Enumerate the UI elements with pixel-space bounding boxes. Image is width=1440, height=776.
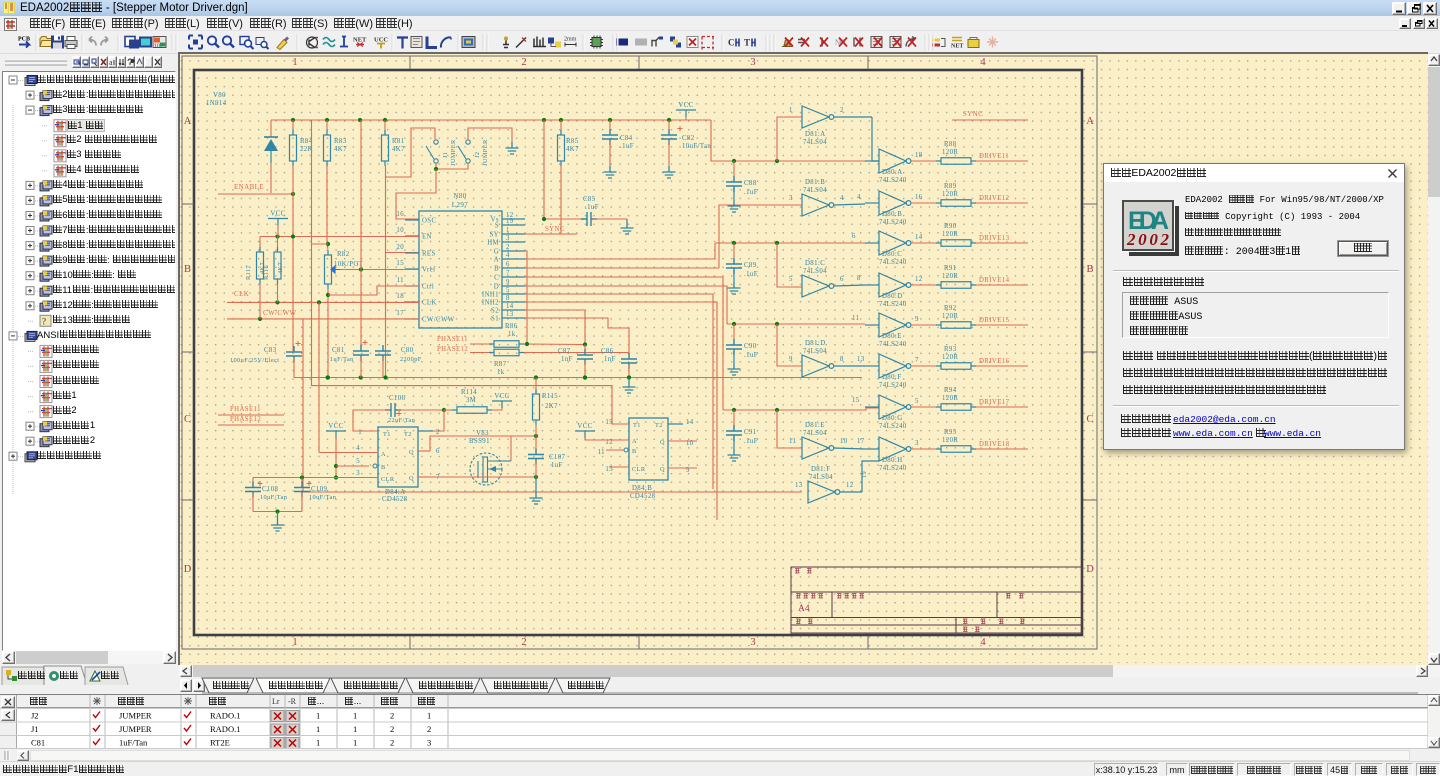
svg-text:RT2E: RT2E [210, 738, 230, 748]
junction lower rail [627, 375, 631, 379]
svg-text:C86: C86 [601, 348, 614, 355]
svg-text:T1: T1 [383, 431, 391, 438]
svg-text:6: 6 [852, 233, 856, 240]
svg-text:22uF/Tan: 22uF/Tan [388, 417, 416, 424]
svg-text:74LS240: 74LS240 [879, 219, 907, 226]
resistor R81 4K7 [384, 120, 386, 135]
wire B to inverter D81:B [719, 205, 802, 268]
svg-text:J1: J1 [442, 152, 449, 158]
wire DRIVE17 net [976, 406, 1028, 408]
wire D80:G output [911, 406, 941, 408]
svg-text:G: G [494, 249, 499, 256]
svg-text:1: 1 [353, 724, 357, 734]
svg-text:11: 11 [789, 438, 796, 445]
svg-text:C87: C87 [558, 348, 571, 355]
wire D84:B T2 stub [668, 423, 683, 425]
svg-text:74LS04: 74LS04 [803, 268, 827, 275]
svg-text:14: 14 [686, 419, 694, 426]
svg-text:1nF: 1nF [561, 356, 573, 363]
svg-text:9: 9 [789, 356, 793, 363]
capacitor C83 100uF/25V/Elect [286, 346, 302, 362]
wire D81:B output [834, 204, 865, 205]
svg-text:Q: Q [660, 466, 665, 473]
svg-text:14: 14 [915, 234, 923, 241]
svg-text:-R: -R [288, 697, 297, 706]
svg-text:74LS240: 74LS240 [879, 301, 907, 308]
svg-text:T2: T2 [404, 431, 412, 438]
svg-text:PHASE11: PHASE11 [437, 336, 468, 343]
svg-text:120R: 120R [942, 354, 958, 361]
svg-text:4K7: 4K7 [277, 262, 284, 274]
svg-text:CW/CWW: CW/CWW [422, 317, 455, 324]
svg-text:R95: R95 [944, 429, 957, 436]
svg-text:1uF/Tan: 1uF/Tan [119, 738, 148, 748]
svg-text:Q: Q [660, 439, 665, 446]
svg-text:JUMPER: JUMPER [119, 724, 152, 734]
inverter D81:E 74LS04 [802, 437, 829, 459]
svg-text:NET: NET [951, 44, 963, 50]
wire feed row3 [715, 242, 865, 244]
wire feed row5 [727, 323, 865, 325]
capacitor C88 .1uF [733, 161, 735, 182]
svg-text:1nF: 1nF [604, 356, 616, 363]
capacitor C81 1uF/Tan [360, 270, 362, 352]
svg-text:D80:E: D80:E [882, 333, 902, 340]
wire D80:E output [911, 324, 941, 326]
capacitor C90 .1uF [733, 324, 735, 345]
junction lower rail [583, 375, 587, 379]
svg-text:Ctrl: Ctrl [422, 284, 434, 291]
svg-text:R83: R83 [334, 138, 347, 145]
svg-text:1: 1 [316, 724, 320, 734]
wire C net [525, 277, 723, 410]
wire bundle vertical x319 [318, 302, 320, 452]
svg-text:.1uF: .1uF [744, 352, 758, 359]
wire V83 source line [433, 476, 536, 478]
svg-text:S2: S2 [491, 308, 499, 315]
svg-text:74LS240: 74LS240 [879, 382, 907, 389]
svg-text:S1: S1 [491, 316, 499, 323]
resistor R90 120R [941, 240, 971, 247]
svg-text:C88: C88 [744, 180, 757, 187]
svg-text:CD4528: CD4528 [630, 493, 656, 500]
svg-text:C107: C107 [549, 454, 566, 461]
svg-text:R89: R89 [944, 183, 957, 190]
svg-text:C109: C109 [311, 486, 328, 493]
capacitor C89 .1uF [733, 243, 735, 264]
svg-text:CD4528: CD4528 [382, 496, 408, 503]
wire D84:B Q stub [668, 440, 697, 442]
svg-text:8: 8 [840, 356, 844, 363]
svg-text:V80: V80 [213, 92, 226, 99]
svg-text:120R: 120R [942, 231, 958, 238]
wire J2 top to ground [468, 128, 512, 142]
svg-text:74LS240: 74LS240 [879, 177, 907, 184]
svg-text:C91: C91 [744, 429, 757, 436]
junction on top rail [542, 118, 546, 122]
svg-text:102: 102 [154, 44, 163, 50]
svg-text:2K7: 2K7 [545, 403, 558, 410]
svg-text:6: 6 [506, 261, 510, 268]
svg-text:B: B [494, 266, 499, 273]
ground lower rail [628, 378, 630, 382]
svg-text:RADO.1: RADO.1 [210, 711, 240, 721]
svg-text:4: 4 [506, 252, 510, 259]
wire to D81:F input [303, 491, 802, 493]
svg-text:B: B [184, 264, 191, 275]
svg-text:Q: Q [409, 475, 414, 482]
svg-text:20: 20 [396, 244, 404, 251]
svg-text:D80:B: D80:B [882, 211, 902, 218]
inverter D81:B 74LS04 [802, 194, 829, 216]
zone tick marks [182, 56, 1097, 649]
wire G net to R86 [525, 251, 527, 344]
svg-text:RES: RES [422, 251, 436, 258]
wire R86 to G and C87 [524, 343, 585, 346]
wire D84:A Q stub [418, 450, 430, 452]
wire A net [525, 243, 715, 259]
svg-text:A: A [1086, 116, 1094, 127]
wire rail to Vref line [360, 120, 362, 270]
svg-text:D81:C: D81:C [805, 260, 825, 267]
wire INH2 net [525, 302, 717, 520]
ground top (between J2 and R85) [506, 142, 519, 154]
svg-text:1: 1 [789, 107, 793, 114]
svg-text:17: 17 [396, 310, 404, 317]
IC D84:A CD4528 [378, 427, 418, 487]
junction on top rail [667, 118, 671, 122]
svg-text:C: C [728, 38, 735, 48]
wire V83 gate feed [430, 436, 536, 451]
svg-text:JUMPER: JUMPER [119, 711, 152, 721]
svg-text:C: C [1086, 414, 1093, 425]
svg-text:CW/CWW: CW/CWW [263, 309, 297, 317]
junction lower rail [383, 375, 387, 379]
svg-text:D: D [494, 284, 499, 291]
svg-text:4: 4 [356, 445, 360, 452]
svg-text:16: 16 [396, 211, 404, 218]
wire D80:F input stub [865, 365, 879, 367]
svg-text:15: 15 [605, 419, 613, 426]
sheet outer zone frame [182, 56, 1097, 649]
wire bundle vertical x303 [302, 319, 304, 492]
svg-text:R116: R116 [263, 265, 270, 280]
svg-text:3: 3 [750, 637, 755, 648]
svg-text:T: T [744, 38, 750, 48]
svg-text:R88: R88 [944, 141, 957, 148]
sheet inner border [194, 70, 1082, 635]
svg-text:120R: 120R [942, 395, 958, 402]
resistor R85 4K7 [560, 120, 562, 135]
svg-text:BSS91: BSS91 [469, 438, 490, 445]
svg-text:C81: C81 [31, 738, 45, 748]
svg-text:8: 8 [857, 275, 861, 282]
wire RES net [386, 252, 420, 254]
svg-text:Lr: Lr [272, 697, 280, 706]
wire A pin feed [319, 452, 377, 454]
svg-text:SY: SY [490, 232, 500, 239]
resistor R83 4K7 [326, 120, 328, 135]
svg-text:C: C [494, 275, 499, 282]
wire B pin stub [336, 465, 369, 467]
svg-text:R81: R81 [392, 138, 405, 145]
svg-text:CLR: CLR [632, 466, 646, 473]
wire DRIVE14 net [976, 284, 1028, 286]
wire D81:D output [834, 365, 865, 367]
svg-text:10: 10 [840, 438, 848, 445]
svg-text:5: 5 [915, 398, 919, 405]
svg-text:R91: R91 [944, 265, 957, 272]
svg-text:1: 1 [292, 637, 297, 648]
svg-text:D84:A: D84:A [385, 489, 406, 496]
svg-text:6: 6 [840, 276, 844, 283]
wire D80:H input stub [865, 448, 879, 450]
svg-text:2: 2 [436, 429, 440, 436]
capacitor C106 22uF/Tan [385, 403, 401, 417]
svg-text:a: a [109, 58, 113, 67]
svg-text:R115: R115 [542, 393, 558, 400]
svg-text:A: A [381, 451, 386, 458]
svg-text:4: 4 [980, 57, 986, 68]
svg-text:R114: R114 [461, 389, 477, 396]
svg-text:D81:D: D81:D [805, 340, 826, 347]
svg-text:L297: L297 [452, 201, 468, 209]
wire S2 net to C87 [525, 310, 585, 345]
wire D80:C output [911, 242, 941, 244]
wire R82 wiper to Vref [340, 269, 419, 271]
svg-text:15: 15 [396, 260, 404, 267]
svg-text:VCC: VCC [577, 423, 592, 430]
svg-text:4K7: 4K7 [392, 146, 405, 153]
svg-text:15: 15 [852, 397, 860, 404]
svg-text:D81:F: D81:F [811, 466, 830, 473]
svg-text:A: A [632, 438, 637, 445]
svg-text:HM: HM [487, 240, 499, 247]
svg-text:.1uF: .1uF [620, 143, 634, 150]
svg-text:74LS04: 74LS04 [803, 430, 827, 437]
svg-text:74LS04: 74LS04 [803, 187, 827, 194]
svg-text:R82: R82 [337, 251, 350, 258]
jumper J2 [466, 140, 470, 144]
capacitor C91 .1uF [733, 410, 735, 431]
wire VCC top rail [294, 119, 711, 121]
wire D80:A input stub [865, 160, 879, 162]
svg-text:2: 2 [521, 57, 526, 68]
svg-text:74LS04: 74LS04 [803, 139, 827, 146]
svg-text:1N914: 1N914 [206, 100, 227, 107]
svg-text:.1uF: .1uF [744, 189, 758, 196]
wire DRIVE16 net [976, 365, 1028, 367]
resistor R89 120R [941, 200, 971, 207]
wire V80 to ENABLE [270, 163, 272, 193]
wire D80:D output [911, 284, 941, 286]
svg-text:SYNC: SYNC [545, 226, 565, 233]
capacitor C108 10uF/Tan [252, 478, 254, 488]
svg-text:100uF/25V/Elect: 100uF/25V/Elect [230, 357, 279, 364]
wire R82 bottom to Ctrl and lower rail [327, 289, 329, 378]
svg-text:1k: 1k [497, 369, 505, 376]
svg-text:CLR: CLR [381, 476, 395, 483]
svg-text:4K7: 4K7 [334, 146, 347, 153]
svg-text:J1: J1 [31, 724, 39, 734]
wire feed row7 [723, 408, 879, 410]
svg-text:74LS04: 74LS04 [809, 474, 833, 481]
wire Vs vertical [543, 120, 545, 219]
svg-text:DRIVE12: DRIVE12 [979, 195, 1010, 202]
resistor R95 120R [941, 446, 971, 453]
svg-text:3: 3 [427, 738, 431, 748]
svg-text:D80:D: D80:D [882, 293, 903, 300]
wire D80:G input stub [865, 406, 879, 408]
inverter D81:A 74LS04 [802, 106, 829, 128]
svg-text:4K7: 4K7 [566, 146, 579, 153]
svg-text:120R: 120R [942, 273, 958, 280]
svg-text:17: 17 [857, 438, 865, 445]
svg-text:A4: A4 [798, 604, 810, 614]
junction on top rail [383, 118, 387, 122]
potentiometer R82 10K/POT [325, 255, 332, 284]
svg-text:C90: C90 [744, 343, 757, 350]
svg-text:R94: R94 [944, 387, 957, 394]
svg-text:2: 2 [427, 724, 431, 734]
wire R81 to RES pin and C80 [385, 166, 387, 378]
wire T2 stub [418, 430, 433, 432]
svg-text:3: 3 [750, 57, 755, 68]
wire branch to D81:A input [777, 117, 802, 161]
capacitor C86 1nF [628, 353, 630, 357]
resistor R116 4K7 [277, 237, 279, 253]
junction on top rail [358, 118, 362, 122]
capacitor C84 .1uF [609, 120, 611, 133]
pin number labels L297 left [0, 0, 1, 1]
svg-text:DRIVE11: DRIVE11 [979, 153, 1009, 160]
wire D84:B B stub [606, 449, 624, 451]
svg-text:120R: 120R [942, 191, 958, 198]
svg-text:C85: C85 [583, 196, 596, 203]
svg-text:2mm: 2mm [564, 37, 577, 43]
svg-text:13: 13 [506, 311, 514, 318]
svg-text:VCC: VCC [678, 102, 693, 109]
svg-text:74LS240: 74LS240 [879, 423, 907, 430]
wire D80:F output [911, 365, 941, 367]
svg-text:PHASE12: PHASE12 [230, 416, 261, 423]
svg-text:D: D [1086, 564, 1094, 575]
capacitor C107 1uF [535, 436, 537, 452]
svg-text:UCC: UCC [374, 37, 388, 44]
wire C106 left to T1 [353, 410, 389, 431]
diode V80 1N914 [271, 119, 294, 121]
resistor R93 120R [941, 363, 971, 370]
title block [791, 567, 1082, 633]
svg-text:11: 11 [852, 315, 859, 322]
wire DRIVE13 net [976, 242, 1028, 244]
svg-text:1: 1 [316, 738, 320, 748]
wire D80:H output [911, 448, 941, 450]
title block texts [795, 569, 812, 574]
wire D81:A output [834, 116, 872, 118]
resistor R92 120R [941, 322, 971, 329]
resistor R86 1k [470, 343, 489, 345]
wire D84:B CLR stub [609, 466, 629, 468]
junction on top rail [608, 118, 612, 122]
svg-text:C82: C82 [682, 135, 695, 142]
svg-text:R84: R84 [300, 138, 313, 145]
svg-text:SYNC: SYNC [963, 110, 983, 118]
svg-text:R93: R93 [944, 346, 957, 353]
wire R81 node to J1 top [386, 128, 436, 177]
IC D84:B CD4528 [629, 418, 668, 480]
wire B net [525, 267, 719, 269]
resistor R87 1k [470, 352, 489, 354]
svg-text:VCC: VCC [494, 393, 509, 400]
capacitor C109 10uF/Tan [301, 478, 303, 488]
svg-text:JUMPER: JUMPER [450, 139, 457, 166]
resistor R115 2K7 [535, 378, 537, 395]
junction on top rail [325, 118, 329, 122]
svg-text:A: A [184, 116, 192, 127]
svg-text:120R: 120R [942, 313, 958, 320]
svg-text:R92: R92 [944, 305, 957, 312]
svg-text:2200pF: 2200pF [400, 356, 422, 363]
svg-text:Q: Q [409, 449, 414, 456]
buffer D80:D 74LS240 [879, 273, 906, 297]
capacitor C87 1nF [584, 345, 586, 353]
svg-text:2: 2 [390, 738, 394, 748]
buffer D80:B 74LS240 [879, 191, 906, 215]
inverter D81:D 74LS04 [802, 355, 829, 377]
wire VCC rail drop to row1 feed [711, 120, 865, 161]
svg-text:C83: C83 [264, 347, 277, 354]
svg-text:C: C [184, 414, 191, 425]
junction lower rail [326, 375, 330, 379]
svg-text:16: 16 [915, 194, 923, 201]
svg-text:12: 12 [915, 276, 923, 283]
svg-text:ENABLE: ENABLE [234, 183, 264, 191]
svg-text:19: 19 [506, 218, 514, 225]
resistor R88 120R [941, 158, 971, 165]
buffer D80:G 74LS240 [879, 395, 906, 419]
svg-text:D80:A: D80:A [882, 169, 903, 176]
wire ENABLE net [218, 193, 293, 195]
svg-text:INH1: INH1 [482, 292, 499, 299]
svg-text:1uF: 1uF [551, 462, 563, 469]
wire bundle vertical x311 [312, 120, 630, 424]
wire D80:C input stub [865, 242, 879, 244]
svg-text:R90: R90 [944, 223, 957, 230]
buffer D80:A 74LS240 [879, 149, 906, 173]
svg-text:Vref: Vref [422, 267, 436, 274]
zone letters and numbers [184, 57, 1095, 648]
svg-text:C80: C80 [401, 347, 414, 354]
svg-text:D81:E: D81:E [805, 422, 825, 429]
svg-text:RADO.1: RADO.1 [210, 724, 240, 734]
svg-text:3M: 3M [466, 397, 476, 404]
svg-text:13: 13 [795, 482, 803, 489]
svg-text:VCC: VCC [270, 211, 285, 218]
svg-text:1: 1 [427, 711, 431, 721]
svg-text:5: 5 [506, 287, 510, 294]
svg-text:R117: R117 [245, 265, 252, 280]
svg-text:12: 12 [846, 482, 854, 489]
capacitor C85 .1uF [581, 212, 597, 226]
wire CW/CWW net [227, 318, 419, 320]
junction lower rail [534, 375, 538, 379]
wire DRIVE11 net [976, 160, 1028, 162]
svg-text:3: 3 [506, 235, 510, 242]
wire D81:E output [834, 448, 865, 449]
svg-text:D80:G: D80:G [882, 415, 903, 422]
svg-text:OSC: OSC [422, 218, 436, 225]
